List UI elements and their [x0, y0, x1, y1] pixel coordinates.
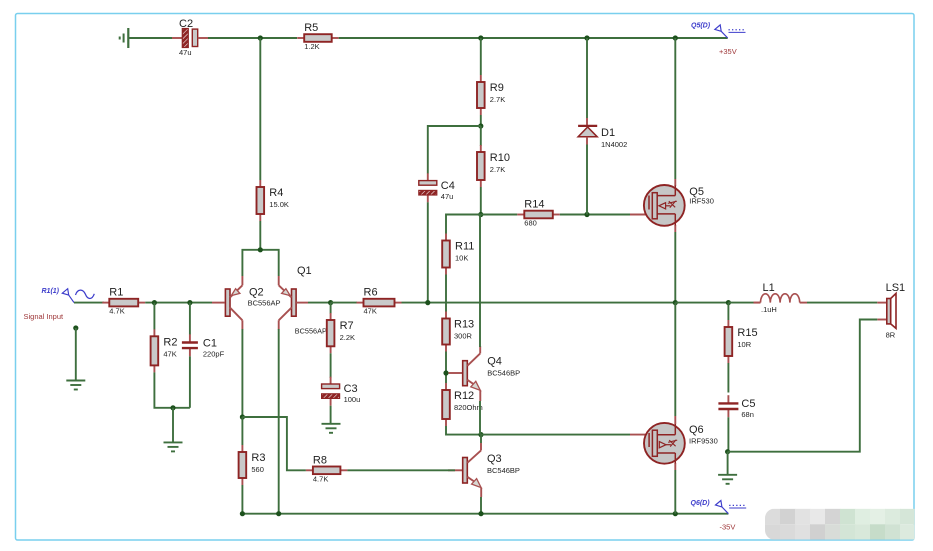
svg-text:.1uH: .1uH [761, 305, 777, 314]
svg-text:BC556AP: BC556AP [295, 327, 327, 336]
svg-text:IRF530: IRF530 [689, 197, 714, 206]
terminal antenna top-left [120, 28, 129, 48]
wire R15 to C5 [727, 363, 729, 393]
wire top rail R5 to +35V terminal [339, 37, 728, 39]
node Q5 drain [673, 35, 678, 40]
svg-text:R6: R6 [364, 287, 378, 299]
wire R4 top lead [259, 38, 261, 180]
node Q4 emitter / Q3 collector / Q6 gate [478, 432, 483, 437]
terminal Q5(D) +35V [691, 23, 746, 57]
svg-text:R5: R5 [304, 22, 318, 34]
capacitor C2 [179, 18, 198, 57]
wire R3 top [241, 417, 243, 445]
wire C1 bottom [189, 356, 191, 408]
svg-text:Signal Input: Signal Input [24, 312, 65, 321]
ground symbol R2C1 [164, 442, 183, 451]
wire R15 top [727, 303, 729, 320]
svg-text:C5: C5 [741, 398, 755, 410]
svg-text:4.7K: 4.7K [313, 474, 328, 483]
node R9/R10/C4 [478, 123, 483, 128]
svg-text:BC556AP: BC556AP [248, 299, 281, 308]
transistor Q6 IRF9530 [644, 416, 718, 470]
svg-text:Q6: Q6 [689, 424, 704, 436]
node D1 top [584, 35, 589, 40]
svg-text:L1: L1 [763, 282, 775, 294]
ground input [73, 325, 78, 380]
svg-text:8R: 8R [886, 331, 896, 340]
inductor L1 [754, 282, 808, 314]
wire Q4 collector up [479, 215, 481, 348]
transistor Q1 BC556AP [279, 265, 327, 336]
svg-text:R7: R7 [340, 320, 354, 332]
resistor R2 [151, 329, 178, 372]
svg-text:Q3: Q3 [487, 453, 502, 465]
wire node to C4 [428, 126, 481, 174]
wire C2 to R5 [208, 37, 297, 39]
svg-text:2.7K: 2.7K [490, 165, 505, 174]
wire top-left to C2 [129, 37, 172, 39]
wire R7 to C3 [330, 353, 332, 378]
wire Q1 base to node [308, 302, 331, 304]
node R7/R6 [328, 300, 333, 305]
resistor R1 [102, 287, 145, 316]
svg-text:R15: R15 [737, 327, 757, 339]
wire node to R14 [481, 214, 518, 216]
wire R4 to emitter node [259, 221, 261, 250]
node R9 top [478, 35, 483, 40]
svg-text:R8: R8 [313, 454, 327, 466]
wire to L1 [728, 302, 753, 304]
svg-text:220pF: 220pF [203, 349, 225, 358]
resistor R4 [257, 180, 289, 221]
wire to Q6 gate [481, 434, 630, 436]
svg-text:300R: 300R [454, 332, 473, 341]
resistor R13 [442, 312, 474, 352]
node emitters R4 [258, 247, 263, 252]
wire emitter pair [242, 250, 278, 276]
svg-text:1N4002: 1N4002 [601, 140, 627, 149]
svg-text:R9: R9 [490, 82, 504, 94]
wire node to R10 [480, 126, 482, 146]
svg-text:68n: 68n [741, 410, 754, 419]
wire C4 to output rail [427, 202, 429, 302]
wire to ground [172, 408, 174, 442]
resistor R12 [442, 383, 483, 426]
svg-text:R10: R10 [490, 152, 510, 164]
wire R11 to R13 crossing rail [445, 275, 447, 312]
wire Q6 source to bottom rail [674, 470, 676, 514]
svg-text:D1: D1 [601, 127, 615, 139]
speaker LS1 8R [877, 282, 905, 340]
svg-text:Q2: Q2 [249, 287, 264, 299]
node R15/L1 [726, 300, 731, 305]
wire R9 top lead [480, 38, 482, 75]
svg-text:R2: R2 [163, 336, 177, 348]
svg-text:R14: R14 [524, 199, 544, 211]
wire speaker return [728, 320, 878, 452]
wire node to R6 [331, 302, 357, 304]
capacitor C3 [322, 377, 361, 406]
svg-text:R12: R12 [454, 390, 474, 402]
wire output to R15/L1 [675, 302, 728, 304]
transistor Q2 BC556AP [225, 276, 280, 330]
node Q4 base [443, 370, 448, 375]
wire Q5 source to output rail [674, 232, 676, 303]
svg-text:560: 560 [251, 465, 264, 474]
wire R2 bottom to C1 bottom [154, 372, 190, 407]
transistor Q5 IRF530 [644, 179, 714, 232]
wire R2 top [153, 303, 155, 330]
node Q3 emitter bottom [478, 511, 483, 516]
resistor R15 [725, 320, 758, 363]
svg-text:BC546BP: BC546BP [487, 466, 520, 475]
svg-text:Q1: Q1 [297, 265, 312, 277]
svg-text:R4: R4 [269, 187, 283, 199]
svg-text:2.7K: 2.7K [490, 95, 505, 104]
terminal Q6(D) -35V [691, 500, 747, 532]
svg-text:10R: 10R [737, 340, 751, 349]
wire R12 bottom elbow [446, 426, 481, 435]
svg-text:1.2K: 1.2K [304, 42, 319, 51]
terminal R1(1) signal input [42, 288, 95, 303]
ground symbol C3 [322, 424, 341, 433]
svg-text:680: 680 [524, 219, 537, 228]
transistor Q4 BC546BP [449, 346, 521, 401]
wire R13 to R12 [445, 352, 447, 384]
capacitor C1 [182, 334, 225, 358]
ground symbol output [718, 475, 737, 484]
wire Q1 collector to bottom rail [278, 329, 280, 514]
svg-text:C2: C2 [179, 18, 193, 30]
node R3/R8 [240, 414, 245, 419]
wire input to R1 [74, 302, 104, 304]
wire R9 to node [480, 115, 482, 126]
resistor R6 [357, 287, 402, 316]
wire node to ground [727, 452, 729, 475]
svg-text:IRF9530: IRF9530 [689, 437, 718, 446]
svg-text:R1: R1 [109, 287, 123, 299]
wire R14 to Q5 gate [560, 214, 630, 216]
svg-text:R11: R11 [455, 241, 474, 253]
node Q1 collector bottom [276, 511, 281, 516]
svg-text:100u: 100u [344, 395, 361, 404]
node R4 top [258, 35, 263, 40]
svg-text:BC546BP: BC546BP [487, 369, 520, 378]
node R10/R14/R11 [478, 212, 483, 217]
node R2 top [152, 300, 157, 305]
node C1 top [187, 300, 192, 305]
node D1 bottom [584, 212, 589, 217]
svg-text:Q4: Q4 [487, 356, 502, 368]
svg-text:R1(1): R1(1) [42, 288, 60, 295]
resistor R3 [239, 445, 266, 485]
wire L1 to LS1 [807, 302, 877, 304]
svg-text:Q6(D): Q6(D) [691, 500, 711, 507]
wire Q5 drain [674, 38, 676, 179]
wire Q6 drain from output rail [674, 303, 676, 416]
wire node to R11 [446, 215, 481, 234]
svg-text:47u: 47u [441, 192, 454, 201]
wire node to R8 [242, 417, 306, 470]
wire bottom rail [242, 513, 728, 515]
capacitor C4 [419, 173, 455, 202]
svg-text:R13: R13 [454, 319, 474, 331]
svg-text:R3: R3 [251, 452, 265, 464]
svg-text:47K: 47K [163, 349, 176, 358]
resistor R5 [297, 22, 339, 51]
wire R3 to bottom rail [241, 485, 243, 514]
resistor R14 [517, 199, 560, 228]
transistor Q3 BC546BP [448, 443, 520, 497]
svg-text:820Ohm: 820Ohm [454, 403, 483, 412]
capacitor C5 [718, 395, 755, 419]
node output [673, 300, 678, 305]
node C5/speaker return [725, 449, 730, 454]
wire Q4 emitter down [479, 401, 481, 435]
svg-text:15.0K: 15.0K [269, 200, 289, 209]
diode D1 1N4002 [578, 38, 627, 215]
node C4 bottom [425, 300, 430, 305]
wire C5 to node [727, 417, 729, 452]
wire Q3 collector up [480, 435, 482, 443]
node R2C1 ground [170, 405, 175, 410]
svg-text:47u: 47u [179, 48, 192, 57]
svg-text:-35V: -35V [720, 523, 736, 532]
svg-text:C3: C3 [344, 383, 358, 395]
svg-text:+35V: +35V [719, 47, 737, 56]
svg-text:10K: 10K [455, 254, 468, 263]
svg-text:2.2K: 2.2K [340, 333, 355, 342]
wire node to R7 [330, 303, 332, 314]
wire Q3 emitter to bottom rail [480, 497, 482, 514]
resistor R7 [327, 313, 355, 353]
ground symbol input [66, 381, 85, 390]
resistor R8 [306, 454, 348, 483]
wire output rail left [402, 302, 676, 304]
node R3 bottom [240, 511, 245, 516]
watermark blur patch [765, 509, 916, 540]
svg-text:47K: 47K [364, 307, 377, 316]
resistor R10 [477, 145, 510, 187]
svg-text:Q5(D): Q5(D) [691, 23, 711, 30]
wire C3 to ground [330, 406, 332, 424]
wire R8 to Q3 base [347, 469, 455, 471]
svg-text:4.7K: 4.7K [109, 307, 124, 316]
wire R1 to Q2 base [145, 302, 212, 304]
svg-text:LS1: LS1 [886, 282, 906, 294]
wire R10 to node [480, 187, 482, 215]
node Q6 source bottom [673, 511, 678, 516]
svg-text:C4: C4 [441, 180, 455, 192]
resistor R9 [477, 75, 505, 115]
wire C1 top [189, 303, 191, 335]
resistor R11 [442, 234, 474, 275]
svg-text:C1: C1 [203, 337, 217, 349]
wire Q2 collector down [241, 329, 243, 417]
